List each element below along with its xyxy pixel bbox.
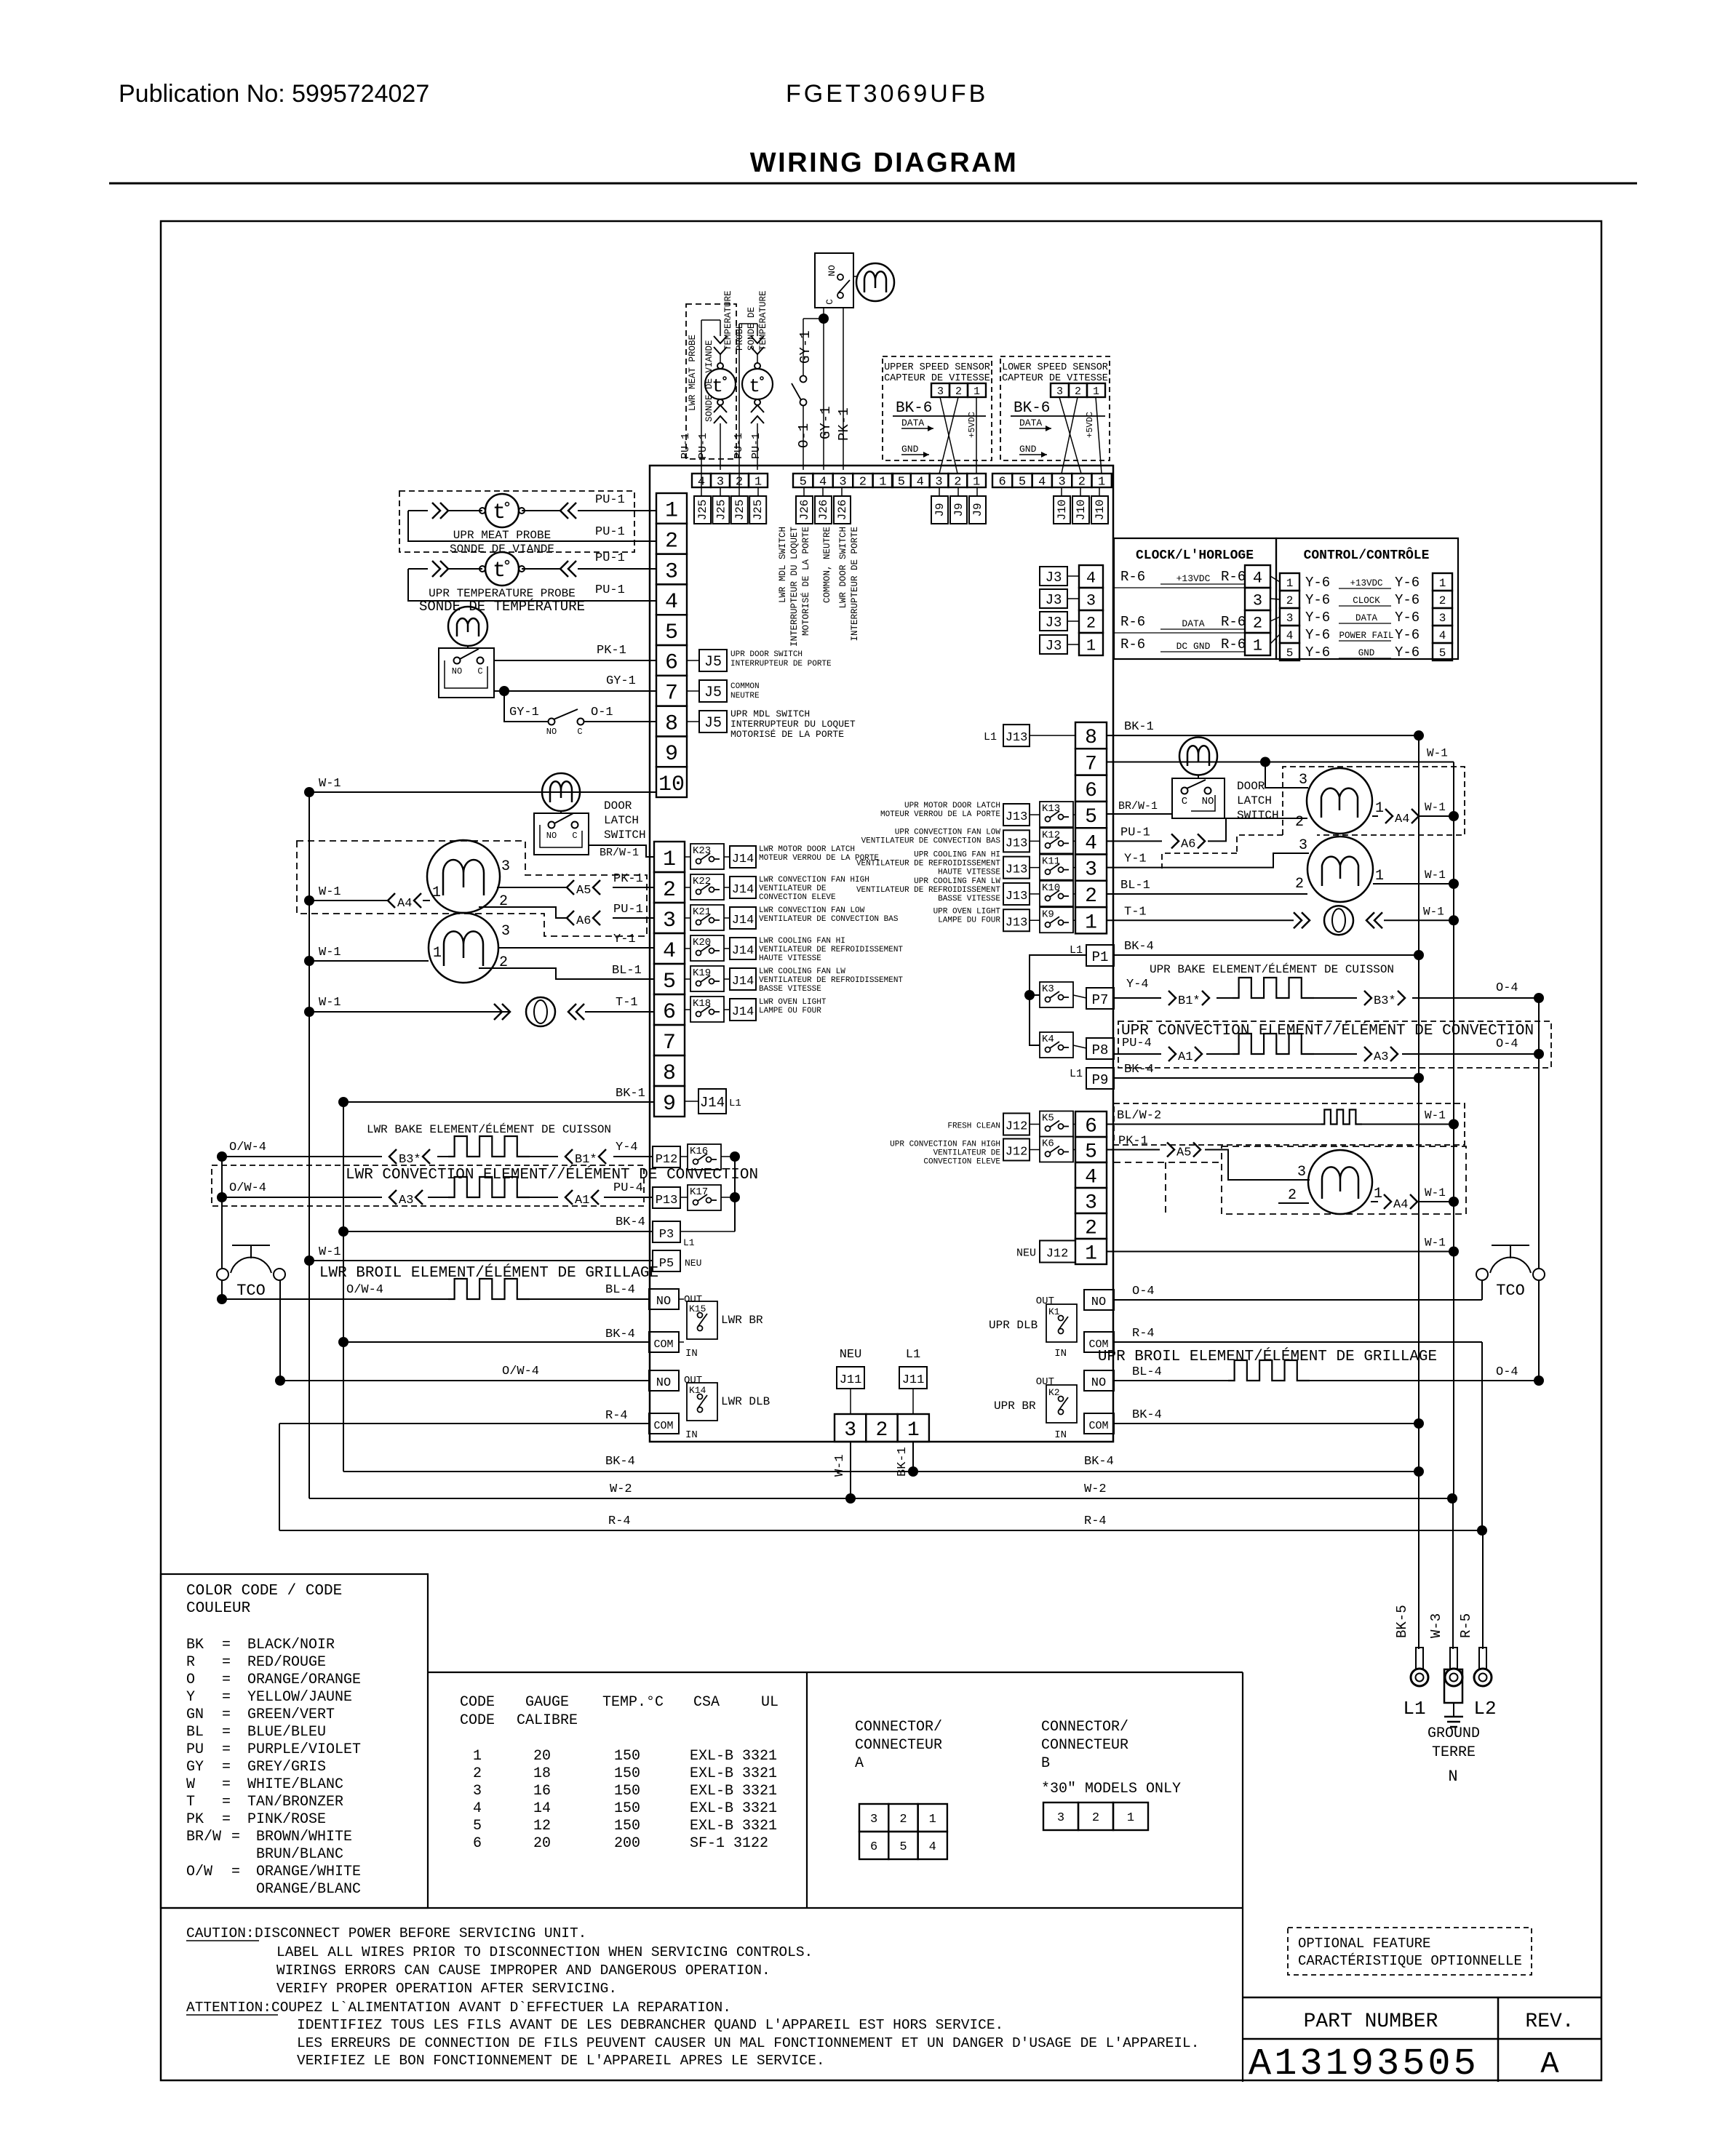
control box CONTROL/CONTROLE xyxy=(1276,538,1458,659)
svg-text:R-6: R-6 xyxy=(1120,614,1145,630)
svg-text:W: W xyxy=(186,1776,195,1793)
svg-text:J9: J9 xyxy=(933,503,947,516)
svg-text:1: 1 xyxy=(929,1813,936,1826)
svg-text:O-4: O-4 xyxy=(1496,981,1518,995)
svg-text:VERIFY PROPER OPERATION AFTER: VERIFY PROPER OPERATION AFTER SERVICING. xyxy=(276,1981,617,1997)
wire BK-4 P3 xyxy=(338,1226,349,1237)
svg-text:2: 2 xyxy=(665,530,678,554)
svg-text:2: 2 xyxy=(1295,814,1304,831)
connector J14 row4 xyxy=(730,938,756,959)
svg-text:3: 3 xyxy=(1439,612,1446,625)
svg-text:GY-1: GY-1 xyxy=(818,406,834,439)
svg-text:PU-1: PU-1 xyxy=(595,493,625,507)
svg-text:3: 3 xyxy=(1297,1164,1306,1181)
svg-text:20: 20 xyxy=(533,1748,551,1765)
svg-text:A5: A5 xyxy=(1176,1146,1191,1160)
svg-text:1: 1 xyxy=(1085,1243,1097,1266)
svg-text:A: A xyxy=(1540,2047,1559,2082)
svg-text:LWR MDL SWITCH: LWR MDL SWITCH xyxy=(778,527,788,603)
svg-text:2: 2 xyxy=(499,954,508,971)
svg-text:BK-1: BK-1 xyxy=(1124,720,1154,734)
svg-text:PU-1: PU-1 xyxy=(750,433,763,459)
wire K16 K17 to P3 L1 bus xyxy=(734,1157,736,1231)
wire BR/W-1 row1 col2 xyxy=(589,845,654,857)
svg-text:A3: A3 xyxy=(1374,1050,1388,1064)
svg-text:MOTEUR VERROU DE LA PORTE: MOTEUR VERROU DE LA PORTE xyxy=(880,810,1000,819)
svg-text:NO: NO xyxy=(1202,796,1214,807)
svg-text:5: 5 xyxy=(1085,806,1097,829)
svg-text:DC GND: DC GND xyxy=(1176,641,1211,652)
svg-text:GY-1: GY-1 xyxy=(797,330,813,364)
part number table xyxy=(1243,1997,1601,1999)
svg-text:2: 2 xyxy=(1253,614,1262,632)
svg-text:1: 1 xyxy=(432,885,441,901)
wire BR/W-1 row5 right xyxy=(1107,813,1172,815)
svg-text:Y-4: Y-4 xyxy=(616,1141,638,1154)
svg-text:6: 6 xyxy=(1085,1116,1097,1138)
connector J13 row8 L1 xyxy=(1003,724,1030,746)
svg-text:NEU: NEU xyxy=(685,1258,701,1269)
svg-text:PU-1: PU-1 xyxy=(697,433,709,459)
svg-text:1: 1 xyxy=(973,476,980,490)
svg-text:150: 150 xyxy=(614,1783,640,1800)
svg-text:7: 7 xyxy=(665,682,678,706)
relay K12 xyxy=(1040,828,1073,853)
color code box xyxy=(161,1574,428,1908)
svg-text:YELLOW/JAUNE: YELLOW/JAUNE xyxy=(247,1689,352,1706)
svg-text:3: 3 xyxy=(870,1813,877,1826)
svg-text:P1: P1 xyxy=(1092,949,1109,965)
wire BK-1 row8 right xyxy=(1107,735,1419,736)
svg-text:J12: J12 xyxy=(1006,1146,1028,1159)
svg-text:=: = xyxy=(231,1829,240,1845)
svg-text:=: = xyxy=(222,1689,231,1706)
svg-text:PU-1: PU-1 xyxy=(680,433,692,459)
svg-text:A4: A4 xyxy=(1395,813,1409,826)
svg-text:L2: L2 xyxy=(1473,1698,1496,1720)
svg-text:=: = xyxy=(222,1637,231,1653)
ring terminal L1 xyxy=(1416,1648,1423,1669)
svg-text:NO: NO xyxy=(1091,1295,1106,1309)
svg-text:Y-6: Y-6 xyxy=(1305,592,1330,608)
svg-text:DISCONNECT POWER BEFORE SERVIC: DISCONNECT POWER BEFORE SERVICING UNIT. xyxy=(255,1925,586,1941)
svg-text:NO: NO xyxy=(656,1295,671,1309)
svg-text:DOOR: DOOR xyxy=(1237,780,1265,793)
svg-text:LES ERREURS DE CONNECTION DE F: LES ERREURS DE CONNECTION DE FILS PEUVEN… xyxy=(297,2035,1199,2051)
svg-text:DATA: DATA xyxy=(1182,618,1204,629)
svg-text:R-6: R-6 xyxy=(1120,569,1145,585)
thermal cutout TCO right xyxy=(1492,1245,1529,1246)
dashed box LWR convection fan optional xyxy=(297,841,647,936)
connector strip J9 pins 5-1 xyxy=(892,474,911,487)
wire Y-4 B1 bake element B3 O-4 xyxy=(1114,997,1161,999)
svg-text:BL-1: BL-1 xyxy=(612,964,642,978)
connector J9 plug boxes xyxy=(931,496,948,524)
connector column J12 (rows 6-1) xyxy=(1075,1111,1107,1137)
svg-text:t: t xyxy=(493,559,506,583)
svg-text:K3: K3 xyxy=(1042,983,1054,995)
relay K14 LWR DLB xyxy=(687,1383,717,1421)
svg-text:HAUTE VITESSE: HAUTE VITESSE xyxy=(938,869,1000,877)
svg-text:LWR DLB: LWR DLB xyxy=(721,1395,770,1408)
svg-text:OPTIONAL FEATURE: OPTIONAL FEATURE xyxy=(1298,1936,1430,1952)
svg-text:BL-1: BL-1 xyxy=(1120,879,1150,893)
UPR door latch switch box xyxy=(1172,778,1225,818)
wire A4 W-1 row (fan pin1) xyxy=(423,900,430,901)
connector J5 row6 xyxy=(699,650,727,671)
svg-text:1: 1 xyxy=(473,1748,482,1765)
main control board block xyxy=(650,466,1113,1442)
svg-text:R-4: R-4 xyxy=(1084,1514,1107,1528)
svg-text:J3: J3 xyxy=(1046,570,1062,586)
svg-text:UPR BAKE ELEMENT/ÉLÉMENT DE CU: UPR BAKE ELEMENT/ÉLÉMENT DE CUISSON xyxy=(1150,962,1394,976)
wire W-1 left bus xyxy=(308,792,310,1498)
svg-text:A6: A6 xyxy=(576,914,591,928)
svg-text:CONVECTION ELEVE: CONVECTION ELEVE xyxy=(759,893,836,902)
UPR door switch box xyxy=(439,648,494,698)
UPR meat probe dashed box xyxy=(399,491,634,552)
relay K3 xyxy=(1040,982,1073,1007)
svg-text:PK: PK xyxy=(186,1811,204,1828)
svg-text:COMMON: COMMON xyxy=(730,682,760,691)
svg-text:L1: L1 xyxy=(984,731,997,743)
svg-text:BK-4: BK-4 xyxy=(605,1327,635,1341)
svg-text:150: 150 xyxy=(614,1800,640,1817)
svg-text:3: 3 xyxy=(663,909,676,933)
svg-text:CALIBRE: CALIBRE xyxy=(517,1712,578,1729)
svg-text:A3: A3 xyxy=(399,1194,413,1207)
svg-text:BL-4: BL-4 xyxy=(1132,1365,1162,1379)
svg-text:ORANGE/WHITE: ORANGE/WHITE xyxy=(256,1864,361,1880)
dashed box UPR convection fan high optional xyxy=(1222,1146,1466,1214)
svg-text:DATA: DATA xyxy=(1355,613,1378,623)
svg-text:W-1: W-1 xyxy=(1425,801,1446,814)
svg-text:=: = xyxy=(222,1759,231,1776)
svg-text:R-6: R-6 xyxy=(1221,614,1246,630)
svg-text:14: 14 xyxy=(533,1800,551,1817)
wire W bus right xyxy=(1453,762,1454,1498)
svg-text:5: 5 xyxy=(898,476,905,490)
svg-text:J3: J3 xyxy=(1046,592,1062,608)
svg-text:J12: J12 xyxy=(1046,1247,1069,1261)
svg-text:FRESH CLEAN: FRESH CLEAN xyxy=(947,1122,1000,1131)
svg-text:POWER FAIL: POWER FAIL xyxy=(1339,631,1393,641)
relay K22 xyxy=(690,874,724,900)
svg-text:CLOCK: CLOCK xyxy=(1353,596,1380,606)
svg-text:CAPTEUR DE VITESSE: CAPTEUR DE VITESSE xyxy=(1002,373,1108,384)
LWR oven light lamp xyxy=(526,997,555,1026)
svg-text:O-4: O-4 xyxy=(1496,1365,1518,1379)
svg-text:OUT: OUT xyxy=(1036,1295,1054,1307)
svg-text:HAUTE VITESSE: HAUTE VITESSE xyxy=(759,954,821,963)
svg-text:PU-1: PU-1 xyxy=(595,583,625,597)
svg-text:150: 150 xyxy=(614,1818,640,1834)
wire PU-1 row2 xyxy=(408,511,656,541)
connector J12 row6 xyxy=(1003,1114,1030,1135)
relay K4 xyxy=(1040,1032,1073,1058)
svg-text:PU-4: PU-4 xyxy=(613,1181,643,1195)
svg-text:UPR OVEN LIGHT: UPR OVEN LIGHT xyxy=(933,907,1001,916)
svg-text:CLOCK/L'HORLOGE: CLOCK/L'HORLOGE xyxy=(1136,548,1254,563)
junction dot GY-1 row7 xyxy=(499,686,509,696)
svg-text:P7: P7 xyxy=(1092,992,1109,1008)
wire W-1 cooling fan pin1 right xyxy=(1373,883,1454,885)
svg-text:K2: K2 xyxy=(1048,1387,1060,1398)
svg-text:LWR MOTOR DOOR LATCH: LWR MOTOR DOOR LATCH xyxy=(759,845,855,854)
svg-text:J14: J14 xyxy=(732,883,754,897)
svg-text:J13: J13 xyxy=(1006,837,1028,850)
svg-text:LWR CONVECTION FAN LOW: LWR CONVECTION FAN LOW xyxy=(759,906,865,915)
wire PK-1 row6 xyxy=(494,660,656,661)
svg-text:NEU: NEU xyxy=(1016,1247,1036,1260)
svg-text:BK-6: BK-6 xyxy=(1014,400,1050,417)
dashed box UPR convection element xyxy=(1118,1021,1551,1068)
terminal NO upr br xyxy=(1084,1370,1114,1391)
svg-text:=: = xyxy=(222,1794,231,1810)
svg-text:J13: J13 xyxy=(1006,916,1028,930)
svg-text:C: C xyxy=(824,299,835,305)
svg-text:W-1: W-1 xyxy=(1427,746,1448,759)
wire O/W bus to TCO left xyxy=(221,1157,223,1269)
svg-text:K14: K14 xyxy=(689,1385,706,1396)
svg-text:t: t xyxy=(749,375,760,397)
wire W-1 row1 NEU xyxy=(1107,1251,1454,1253)
svg-text:DATA: DATA xyxy=(1019,418,1042,428)
svg-text:J10: J10 xyxy=(1075,500,1088,521)
svg-text:150: 150 xyxy=(614,1765,640,1782)
svg-text:+13VDC: +13VDC xyxy=(1350,578,1382,588)
connector strip 3-2-1 J11 xyxy=(835,1414,866,1442)
svg-text:J14: J14 xyxy=(732,944,754,958)
svg-text:TEMPERATURE: TEMPERATURE xyxy=(723,290,733,351)
svg-text:Y-4: Y-4 xyxy=(1126,978,1149,991)
wire R-5 lead xyxy=(1482,1530,1484,1649)
dashed box LWR convection element xyxy=(212,1165,644,1206)
connector strip J25 pins 4-1 xyxy=(692,474,711,487)
svg-text:MOTORISÉ DE LA PORTE: MOTORISÉ DE LA PORTE xyxy=(800,527,811,636)
svg-text:5: 5 xyxy=(473,1818,482,1834)
svg-text:O-1: O-1 xyxy=(796,423,812,448)
svg-text:4: 4 xyxy=(1086,569,1096,587)
svg-text:W-1: W-1 xyxy=(1423,905,1444,918)
svg-text:1: 1 xyxy=(973,386,980,398)
wire BL-1 row5 xyxy=(479,968,654,979)
svg-text:2: 2 xyxy=(1286,594,1294,607)
svg-text:LWR DOOR SWITCH: LWR DOOR SWITCH xyxy=(838,527,848,609)
connector J12 row1 NEU xyxy=(1040,1241,1075,1263)
UPR cooling fan motor xyxy=(1307,837,1373,902)
svg-text:200: 200 xyxy=(614,1835,640,1852)
svg-text:UPR BROIL ELEMENT/ÉLÉMENT DE G: UPR BROIL ELEMENT/ÉLÉMENT DE GRILLAGE xyxy=(1098,1348,1437,1365)
wire T-1 oven light row6 xyxy=(309,1011,510,1013)
wire O/W-4 NO lwr dlb xyxy=(275,1376,285,1386)
svg-text:R-4: R-4 xyxy=(608,1514,631,1528)
wire fan pin2 dashed edge xyxy=(1278,1202,1309,1204)
wire O-1 branch with switch to J26-5 xyxy=(803,318,824,319)
svg-text:MOTORISÉ DE LA PORTE: MOTORISÉ DE LA PORTE xyxy=(730,729,844,740)
connector column P (rows 1-10) xyxy=(656,493,687,524)
svg-text:A: A xyxy=(855,1755,864,1772)
svg-text:CONTROL/CONTRÔLE: CONTROL/CONTRÔLE xyxy=(1304,547,1430,563)
svg-text:PURPLE/VIOLET: PURPLE/VIOLET xyxy=(247,1741,361,1758)
svg-text:K9: K9 xyxy=(1042,909,1054,920)
svg-text:VENTILATEUR DE REFROIDISSEMENT: VENTILATEUR DE REFROIDISSEMENT xyxy=(856,860,1000,869)
svg-text:PK-1: PK-1 xyxy=(613,872,643,886)
svg-text:1: 1 xyxy=(665,499,678,524)
terminal NO lwr br xyxy=(649,1289,679,1309)
svg-text:2: 2 xyxy=(1288,1187,1297,1204)
svg-text:IN: IN xyxy=(1054,1429,1067,1441)
svg-text:UPR MDL SWITCH: UPR MDL SWITCH xyxy=(730,708,810,719)
LWR door latch motor xyxy=(542,773,580,811)
svg-text:CONNECTEUR: CONNECTEUR xyxy=(1041,1737,1128,1754)
svg-text:UPR BR: UPR BR xyxy=(994,1400,1036,1413)
svg-text:P12: P12 xyxy=(656,1153,678,1167)
relay K15 LWR BR xyxy=(687,1301,717,1339)
svg-text:L1: L1 xyxy=(906,1348,920,1362)
svg-text:BK-4: BK-4 xyxy=(605,1455,635,1469)
svg-text:SONDE DE: SONDE DE xyxy=(746,307,757,351)
svg-text:BROWN/WHITE: BROWN/WHITE xyxy=(256,1829,352,1845)
svg-text:CODE: CODE xyxy=(460,1712,495,1729)
svg-text:LWR CONVECTION ELEMENT//ÉLÉMEN: LWR CONVECTION ELEMENT//ÉLÉMENT DE CONVE… xyxy=(346,1166,758,1183)
svg-text:NO: NO xyxy=(656,1376,671,1390)
svg-text:6: 6 xyxy=(1085,780,1097,802)
wire W-3 lead xyxy=(1452,1498,1454,1649)
svg-text:PU-1: PU-1 xyxy=(595,525,625,539)
relay K18 xyxy=(690,997,724,1022)
svg-text:VENTILATEUR DE REFROIDISSEMENT: VENTILATEUR DE REFROIDISSEMENT xyxy=(759,976,903,985)
UPR convection fan high motor xyxy=(1308,1150,1372,1214)
svg-text:R-6: R-6 xyxy=(1120,636,1145,652)
svg-text:REV.: REV. xyxy=(1525,2011,1574,2033)
connector J14 row6 xyxy=(730,999,756,1021)
wire fan pin3 to W-1 row7 xyxy=(1265,762,1308,788)
svg-text:BK-4: BK-4 xyxy=(616,1215,645,1229)
svg-text:WIRINGS ERRORS CAN CAUSE IMPRO: WIRINGS ERRORS CAN CAUSE IMPROPER AND DA… xyxy=(276,1963,771,1979)
svg-text:5: 5 xyxy=(899,1840,907,1854)
svg-text:PU: PU xyxy=(186,1741,204,1758)
svg-text:3: 3 xyxy=(1086,591,1096,610)
svg-text:GAUGE: GAUGE xyxy=(525,1694,569,1711)
svg-text:GND: GND xyxy=(1358,648,1375,658)
LWR convection fan motor xyxy=(427,840,500,913)
svg-text:CSA: CSA xyxy=(693,1694,720,1711)
svg-text:PU-1: PU-1 xyxy=(1120,826,1150,839)
svg-text:BK-1: BK-1 xyxy=(616,1087,645,1101)
wire A5 PK-1 row2 xyxy=(497,887,567,888)
UPR meat probe symbol xyxy=(485,494,519,527)
svg-text:J26: J26 xyxy=(836,500,849,521)
svg-text:LWR COOLING FAN HI: LWR COOLING FAN HI xyxy=(759,937,845,946)
svg-text:LWR OVEN LIGHT: LWR OVEN LIGHT xyxy=(759,998,827,1007)
svg-text:1: 1 xyxy=(1086,636,1096,655)
svg-text:VERIFIEZ LE BON FONCTIONNEMENT: VERIFIEZ LE BON FONCTIONNEMENT DE L'APPA… xyxy=(297,2053,825,2069)
connector J26 plug boxes xyxy=(796,496,813,524)
svg-text:1: 1 xyxy=(907,1419,920,1442)
svg-text:J11: J11 xyxy=(902,1373,925,1387)
svg-text:BR/W: BR/W xyxy=(186,1829,221,1845)
svg-text:L1: L1 xyxy=(1403,1698,1425,1720)
svg-text:NEU: NEU xyxy=(840,1348,862,1362)
svg-text:2: 2 xyxy=(473,1765,482,1782)
wire BL-4 broil element O-4 xyxy=(1114,1380,1228,1381)
svg-text:3: 3 xyxy=(1056,386,1063,398)
lower speed sensor box xyxy=(1000,356,1110,460)
svg-text:W-1: W-1 xyxy=(319,1245,341,1259)
terminal P1 xyxy=(1086,945,1114,966)
svg-text:COUPEZ L`ALIMENTATION AVANT D`: COUPEZ L`ALIMENTATION AVANT D`EFFECTUER … xyxy=(271,2000,731,2016)
svg-text:NO: NO xyxy=(1091,1376,1106,1390)
svg-text:O/W-4: O/W-4 xyxy=(502,1365,539,1378)
wire W-1 to door latch motor xyxy=(309,791,656,793)
svg-text:5: 5 xyxy=(800,476,807,490)
svg-text:BL/W-2: BL/W-2 xyxy=(1117,1109,1161,1123)
svg-text:TCO: TCO xyxy=(236,1282,266,1300)
svg-text:K15: K15 xyxy=(689,1303,706,1314)
svg-text:SONDE DE TEMPÉRATURE: SONDE DE TEMPÉRATURE xyxy=(419,599,585,615)
svg-text:1: 1 xyxy=(754,476,762,490)
relay K23 xyxy=(690,844,724,869)
svg-text:GY: GY xyxy=(186,1759,204,1776)
svg-text:LWR MEAT PROBE: LWR MEAT PROBE xyxy=(688,335,698,411)
svg-text:R-4: R-4 xyxy=(1132,1327,1155,1341)
svg-text:BL-4: BL-4 xyxy=(605,1283,635,1297)
UPR temperature probe symbol xyxy=(485,552,519,586)
connector J14 row9 L1 xyxy=(698,1089,726,1114)
svg-text:BRUN/BLANC: BRUN/BLANC xyxy=(256,1846,343,1863)
svg-text:W-1: W-1 xyxy=(1425,869,1446,882)
svg-text:Y-6: Y-6 xyxy=(1395,592,1420,608)
wire W-1 cooling fan pin1 xyxy=(309,960,429,962)
LWR MDL switch box xyxy=(815,253,853,308)
svg-text:UPR MOTOR DOOR LATCH: UPR MOTOR DOOR LATCH xyxy=(904,802,1000,810)
svg-text:5: 5 xyxy=(1085,1141,1097,1164)
wire BL-1 row2 right xyxy=(1107,893,1307,895)
title underline xyxy=(109,183,1637,185)
svg-text:2: 2 xyxy=(1092,1811,1099,1825)
svg-text:3: 3 xyxy=(665,559,678,584)
svg-text:GN: GN xyxy=(186,1706,204,1723)
wire W-2 bottom xyxy=(309,1498,1452,1499)
wire BL/W-2 fresh clean element W-1 xyxy=(1107,1124,1321,1125)
svg-text:LAMPE OU FOUR: LAMPE OU FOUR xyxy=(759,1007,821,1015)
svg-text:2: 2 xyxy=(899,1813,907,1826)
svg-text:NO: NO xyxy=(827,265,837,276)
wire BK-4 P9 xyxy=(1114,1077,1419,1079)
svg-text:16: 16 xyxy=(533,1783,551,1800)
svg-text:L1: L1 xyxy=(1070,1068,1083,1080)
svg-text:ORANGE/ORANGE: ORANGE/ORANGE xyxy=(247,1672,361,1688)
svg-text:3: 3 xyxy=(473,1783,482,1800)
svg-text:Y-6: Y-6 xyxy=(1395,644,1420,660)
connector J13 row5 xyxy=(1003,804,1030,826)
wire R-4 bottom xyxy=(279,1530,1482,1531)
svg-text:J25: J25 xyxy=(733,500,746,521)
svg-text:P13: P13 xyxy=(656,1194,678,1207)
svg-text:J5: J5 xyxy=(704,684,722,701)
svg-text:GND: GND xyxy=(1019,444,1037,455)
terminal COM lwr dlb xyxy=(649,1413,679,1434)
UPR oven light lamp xyxy=(1324,906,1353,935)
svg-text:GY-1: GY-1 xyxy=(606,674,636,688)
ground symbol xyxy=(1444,1716,1463,1718)
svg-text:4: 4 xyxy=(1439,629,1446,642)
svg-text:J25: J25 xyxy=(696,500,709,521)
wire PU-1 row3 xyxy=(432,561,448,577)
svg-text:C: C xyxy=(477,666,482,676)
svg-text:1: 1 xyxy=(1085,911,1097,934)
